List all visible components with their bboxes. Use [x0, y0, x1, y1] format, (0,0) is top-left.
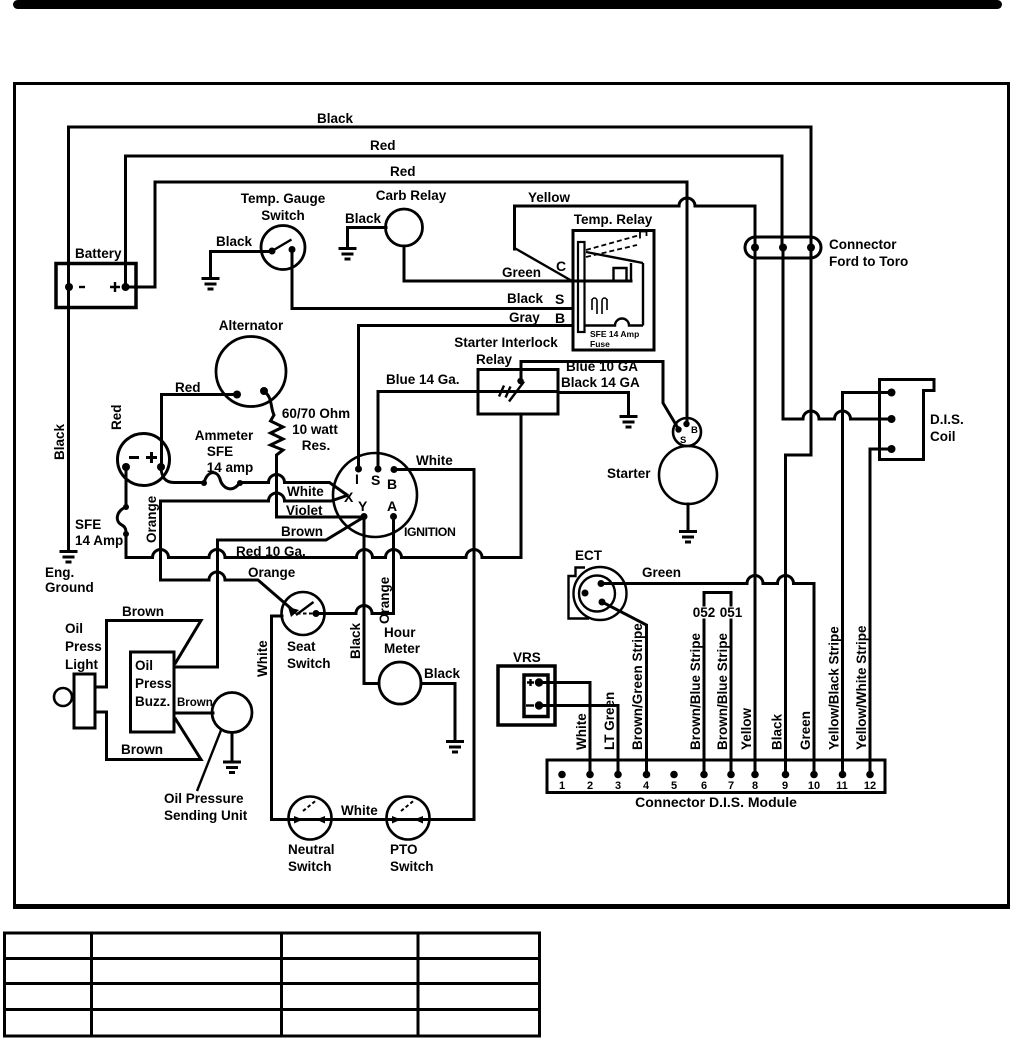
- wire: LT Green from VRS - to module pin 3: [539, 706, 618, 774]
- svg-text:ECT: ECT: [575, 548, 603, 563]
- svg-text:Hour: Hour: [384, 625, 416, 640]
- wire: sending unit to ground: [231, 733, 234, 762]
- svg-text:SFE: SFE: [207, 444, 233, 459]
- svg-text:11: 11: [836, 780, 848, 792]
- wire: White run between neutral and PTO switches to ignition B riser: [290, 818, 474, 821]
- svg-text:Blue 10 GA: Blue 10 GA: [566, 359, 638, 374]
- battery - terminal: [65, 283, 73, 291]
- svg-text:10: 10: [808, 780, 820, 792]
- temp gauge switch circle: [261, 226, 305, 270]
- label: Oil Press Light: [65, 621, 102, 672]
- svg-text:Black: Black: [52, 423, 67, 460]
- wire: relay output down to Red 10 Ga run: [520, 414, 523, 558]
- svg-text:4: 4: [643, 780, 650, 792]
- svg-text:Battery: Battery: [75, 246, 122, 261]
- svg-text:Green: Green: [642, 565, 681, 580]
- wire: Brown/Blue Stripe to module pin 7: [730, 620, 733, 773]
- svg-text:1: 1: [559, 780, 565, 792]
- ignition terminals I S B Y A: [355, 466, 398, 521]
- label: Seat Switch: [287, 639, 331, 671]
- label: Connector Ford to Toro: [829, 237, 908, 269]
- wire: Violet from orange riser to ignition X (wedge bottom): [161, 493, 348, 501]
- label: D.I.S. Coil: [930, 412, 964, 444]
- wire: Brown/Green Stripe from ECT to module pin 4: [604, 603, 647, 773]
- svg-text:PTO: PTO: [390, 842, 418, 857]
- svg-text:Light: Light: [65, 657, 98, 672]
- svg-text:Black: Black: [770, 713, 785, 750]
- svg-text:Seat: Seat: [287, 639, 316, 654]
- ground: black 14 GA: [620, 417, 638, 428]
- module pin numbers: [559, 780, 876, 792]
- svg-text:LT Green: LT Green: [602, 692, 617, 750]
- svg-text:Alternator: Alternator: [219, 318, 284, 333]
- svg-text:10 watt: 10 watt: [292, 422, 338, 437]
- ground: carb relay: [339, 249, 357, 260]
- svg-text:Brown: Brown: [121, 742, 163, 757]
- svg-text:B: B: [387, 476, 397, 492]
- label: Oil Press Buzz.: [135, 658, 172, 709]
- wire: Black from temp gauge switch to ground: [211, 252, 273, 278]
- svg-text:White: White: [416, 453, 453, 468]
- VRS polarity marks: [526, 679, 534, 706]
- svg-text:Orange: Orange: [377, 576, 392, 624]
- svg-text:Black: Black: [424, 666, 461, 681]
- svg-text:Eng.: Eng.: [45, 565, 74, 580]
- svg-text:3: 3: [615, 780, 621, 792]
- D.I.S. coil pins: [888, 389, 896, 454]
- svg-text:2: 2: [587, 780, 593, 792]
- wire: Black 14 GA from relay to ground: [558, 393, 629, 416]
- svg-text:SFE 14 Amp: SFE 14 Amp: [590, 329, 639, 339]
- outer diagram frame: [13, 84, 1010, 907]
- oil press light bulb: [54, 688, 72, 706]
- label: SFE 14 Amp Fuse: [590, 329, 639, 349]
- ignition terminal letters: [344, 471, 397, 514]
- svg-text:A: A: [387, 498, 397, 514]
- svg-text:Orange: Orange: [248, 565, 296, 580]
- wire: White from ignition B right and down to PTO switch: [394, 470, 474, 820]
- svg-text:Yellow/Black Stripe: Yellow/Black Stripe: [827, 626, 842, 750]
- node: ammeter fuse dots: [123, 504, 129, 537]
- temp relay dashed contact lines: [586, 232, 647, 258]
- svg-text:Black: Black: [348, 622, 363, 659]
- svg-text:Red: Red: [370, 138, 396, 153]
- svg-text:S: S: [555, 291, 564, 307]
- ECT body: [569, 568, 590, 619]
- svg-text:Black: Black: [317, 111, 354, 126]
- hour meter circle: [379, 662, 421, 704]
- svg-text:Yellow: Yellow: [528, 190, 571, 205]
- wire: Yellow diagonal to temp relay C terminal: [515, 248, 573, 281]
- bottom reference table: [5, 933, 540, 1036]
- svg-text:Ford to Toro: Ford to Toro: [829, 254, 908, 269]
- svg-text:Blue 14 Ga.: Blue 14 Ga.: [386, 372, 460, 387]
- wire: Brown/Blue Stripe to module pin 6: [703, 620, 706, 773]
- node: black wire corner down to connector: [810, 127, 813, 247]
- svg-text:Starter: Starter: [607, 466, 651, 481]
- ammeter circle: [118, 434, 170, 486]
- wire: Gray from temp relay B wire to ignition I terminal: [359, 326, 574, 470]
- svg-text:Violet: Violet: [286, 503, 323, 518]
- svg-text:Brown/Blue Stripe: Brown/Blue Stripe: [715, 632, 730, 750]
- svg-text:60/70 Ohm: 60/70 Ohm: [282, 406, 350, 421]
- svg-text:5: 5: [671, 780, 677, 792]
- svg-text:Press: Press: [135, 676, 172, 691]
- battery polarity marks: [79, 282, 120, 292]
- module connector box: [547, 760, 885, 793]
- svg-text:Y: Y: [358, 498, 368, 514]
- svg-text:9: 9: [782, 780, 788, 792]
- svg-text:12: 12: [864, 780, 876, 792]
- wire: Black from temp gauge switch right terminal to temp relay S: [292, 250, 573, 309]
- svg-text:Green: Green: [502, 265, 541, 280]
- wire: Blue 14 Ga from ignition S up to starter interlock relay: [378, 392, 478, 470]
- wire: Red from connector middle down then right to D.I.S. coil center pin: [783, 247, 891, 419]
- svg-text:Brown/Green Stripe: Brown/Green Stripe: [630, 623, 645, 750]
- temp relay internal right conductor: [642, 263, 644, 326]
- wire: Brown lower loop from light to buzzer: [95, 712, 201, 760]
- wire: Brown upper loop from light to buzzer: [95, 621, 201, 688]
- temp relay internal coil hook: [614, 263, 632, 281]
- svg-text:Red: Red: [175, 380, 201, 395]
- label: Temp. Gauge Switch: [241, 191, 326, 223]
- svg-text:Res.: Res.: [302, 438, 331, 453]
- wire: Red from alternator to ammeter: [162, 395, 238, 468]
- svg-text:Brown: Brown: [122, 604, 164, 619]
- temp relay box: [573, 231, 654, 351]
- svg-text:S: S: [371, 472, 380, 488]
- label: Blue 10 GA / Black 14 GA: [561, 359, 640, 390]
- svg-text:Meter: Meter: [384, 641, 421, 656]
- alternator terminals: [233, 387, 268, 399]
- label: Oil Pressure Sending Unit: [164, 791, 248, 823]
- pointer line: oil pressure sending unit: [197, 729, 222, 791]
- PTO switch contacts: [392, 801, 423, 824]
- wire: Yellow/Black Stripe from coil top pin down to module pin 11: [843, 393, 892, 774]
- svg-text:Gray: Gray: [509, 310, 540, 325]
- oil pressure sending unit circle: [212, 693, 252, 733]
- svg-text:SFE: SFE: [75, 517, 101, 532]
- wire: Yellow run from temp relay area to connector and down to module pin 8: [515, 198, 756, 773]
- wire: Yellow/White Stripe from coil bottom pin down to module pin 12: [870, 449, 892, 773]
- svg-text:Ground: Ground: [45, 580, 94, 595]
- svg-text:Switch: Switch: [287, 656, 331, 671]
- node: fuse end dots: [201, 480, 243, 486]
- wire: Red second run from battery + to starter B terminal: [126, 182, 688, 424]
- ignition switch circle: [333, 453, 417, 537]
- wire: Black from connector down with jog to module pin 9: [786, 247, 812, 773]
- ECT outer circle: [574, 567, 627, 620]
- svg-text:052: 052: [693, 605, 716, 620]
- ammeter polarity marks: [129, 452, 157, 463]
- svg-text:Black: Black: [345, 211, 382, 226]
- svg-text:Brown: Brown: [177, 697, 213, 709]
- svg-text:Starter Interlock: Starter Interlock: [454, 335, 558, 350]
- wire: Black from carb relay to ground: [348, 228, 387, 248]
- wire: SFE 14 Amp fuse below ammeter and Red 10 Ga. run: [117, 467, 521, 558]
- wire: White from VRS + to module pin 2: [539, 683, 590, 774]
- label: Neutral Switch: [288, 842, 335, 874]
- svg-text:IGNITION: IGNITION: [404, 525, 456, 539]
- temp relay internal clip (fuse holder): [592, 298, 607, 314]
- svg-text:Yellow/White Stripe: Yellow/White Stripe: [854, 625, 869, 750]
- D.I.S. coil connector body: [880, 380, 935, 460]
- starter terminals: [675, 421, 689, 433]
- 052 051 jumper bracket: [704, 593, 731, 606]
- svg-text:Red 10 Ga.: Red 10 Ga.: [236, 544, 306, 559]
- ground: starter: [679, 532, 697, 543]
- wire: Brown from buzzer to sending unit: [174, 712, 213, 715]
- temp relay internal green continuation: [573, 280, 631, 283]
- wire: Blue 10 GA from relay to starter S: [521, 362, 679, 430]
- svg-text:Black: Black: [216, 234, 253, 249]
- svg-text:Oil: Oil: [65, 621, 83, 636]
- svg-text:Ammeter: Ammeter: [195, 428, 254, 443]
- PTO switch circle: [387, 797, 430, 840]
- svg-text:VRS: VRS: [513, 650, 541, 665]
- svg-text:Carb Relay: Carb Relay: [376, 188, 447, 203]
- seat switch contacts: [288, 602, 320, 617]
- label: Starter Interlock Relay: [454, 335, 558, 367]
- svg-text:Yellow: Yellow: [739, 707, 754, 750]
- svg-text:Fuse: Fuse: [590, 339, 610, 349]
- svg-text:Buzz.: Buzz.: [135, 694, 170, 709]
- svg-text:Red: Red: [390, 164, 416, 179]
- svg-text:Sending Unit: Sending Unit: [164, 808, 248, 823]
- svg-text:Brown/Blue Stripe: Brown/Blue Stripe: [688, 632, 703, 750]
- neutral switch contacts: [294, 801, 325, 824]
- starter motor circle: [659, 446, 717, 504]
- svg-text:Neutral: Neutral: [288, 842, 335, 857]
- svg-text:Black 14 GA: Black 14 GA: [561, 375, 640, 390]
- wire: starter to ground: [687, 504, 690, 530]
- svg-text:Orange: Orange: [144, 495, 159, 543]
- VRS outer box: [498, 666, 555, 725]
- connector Ford to Toro pins: [751, 244, 815, 252]
- starter solenoid circle: [673, 418, 701, 446]
- svg-text:7: 7: [728, 780, 734, 792]
- label: Ammeter SFE 14 amp: [195, 428, 254, 475]
- svg-text:Black: Black: [507, 291, 544, 306]
- VRS terminals: [535, 678, 543, 709]
- ECT pins: [582, 580, 606, 606]
- wire: Black from hour meter to ground: [421, 684, 455, 741]
- wire: Brown from ignition Y diagonal and down to oil press buzzer: [176, 517, 364, 667]
- ground: sending unit: [223, 762, 241, 773]
- carb relay circle: [386, 209, 423, 246]
- svg-text:14 Amp: 14 Amp: [75, 533, 123, 548]
- wire: Black battery negative loop (top): [69, 127, 812, 551]
- svg-text:Relay: Relay: [476, 352, 513, 367]
- temp relay armature arm: [586, 252, 643, 263]
- svg-text:Switch: Switch: [390, 859, 434, 874]
- top header bar: [13, 0, 1002, 9]
- svg-text:6: 6: [701, 780, 707, 792]
- wire: White from ammeter + through SFE fuse to ignition X (wedge top): [161, 467, 347, 495]
- svg-text:C: C: [556, 258, 566, 274]
- svg-text:D.I.S.: D.I.S.: [930, 412, 964, 427]
- starter interlock relay switch: [478, 378, 558, 402]
- svg-text:Switch: Switch: [261, 208, 305, 223]
- svg-text:Temp. Gauge: Temp. Gauge: [241, 191, 326, 206]
- wire: Green from carb relay down and right to temp relay C: [404, 246, 573, 281]
- VRS inner box: [524, 675, 548, 717]
- svg-text:Connector D.I.S. Module: Connector D.I.S. Module: [635, 794, 797, 810]
- seat switch circle: [282, 592, 325, 635]
- svg-text:I: I: [355, 471, 359, 487]
- oil press buzzer box: [131, 652, 175, 732]
- svg-text:Coil: Coil: [930, 429, 956, 444]
- wire: Red battery positive up to top run: [126, 156, 783, 287]
- wire: Green from ECT to module pin 10: [601, 576, 814, 774]
- ECT inner circle: [579, 576, 615, 612]
- svg-text:B: B: [555, 310, 565, 326]
- svg-text:051: 051: [720, 605, 743, 620]
- label: PTO Switch: [390, 842, 434, 874]
- wire: White loop from seat switch down to neutral switch: [272, 616, 291, 820]
- svg-text:S: S: [680, 435, 686, 446]
- alternator circle: [216, 337, 286, 407]
- ground: hour meter: [446, 742, 464, 753]
- battery + terminal: [122, 283, 130, 291]
- label: Eng. Ground: [45, 565, 94, 595]
- starter interlock relay box: [478, 370, 558, 415]
- starter terminal letters: [680, 425, 698, 446]
- wire: Orange from seat switch right to ignition A: [316, 517, 394, 614]
- svg-text:White: White: [341, 803, 378, 818]
- svg-text:Brown: Brown: [281, 524, 323, 539]
- ground: temp gauge switch: [202, 279, 220, 290]
- svg-text:8: 8: [752, 780, 758, 792]
- svg-text:White: White: [287, 484, 324, 499]
- wire: battery black to engine ground: [60, 552, 78, 563]
- temp relay internal gray continuation with fuse bump: [584, 319, 643, 326]
- svg-text:Temp. Relay: Temp. Relay: [574, 212, 653, 227]
- svg-text:Green: Green: [798, 711, 813, 750]
- svg-text:Oil Pressure: Oil Pressure: [164, 791, 244, 806]
- label: SFE 14 Amp (ammeter fuse): [75, 517, 123, 548]
- wire: resistor lead and 60/70 ohm resistor body down to ignition Y: [264, 391, 364, 517]
- svg-text:Oil: Oil: [135, 658, 153, 673]
- wire: Violet/Orange riser down to orange run and seat switch: [161, 501, 296, 612]
- svg-text:Press: Press: [65, 639, 102, 654]
- connector Ford to Toro body: [745, 237, 821, 258]
- wire: Black from ignition Y region down to hour meter: [364, 517, 379, 684]
- svg-text:Switch: Switch: [288, 859, 332, 874]
- svg-text:Connector: Connector: [829, 237, 897, 252]
- svg-text:White: White: [574, 713, 589, 750]
- neutral switch circle: [289, 797, 332, 840]
- label: Hour Meter: [384, 625, 421, 656]
- svg-text:Red: Red: [109, 404, 124, 430]
- svg-text:B: B: [691, 425, 698, 436]
- label: 60/70 Ohm 10 watt Res.: [282, 406, 350, 453]
- oil press light box: [74, 674, 95, 728]
- temp relay inner armature bar: [578, 242, 585, 332]
- module pin dots: [558, 771, 874, 779]
- ammeter terminals: [122, 463, 165, 471]
- svg-text:White: White: [255, 640, 270, 677]
- battery box: [56, 264, 136, 308]
- temp gauge switch contacts: [269, 240, 296, 255]
- svg-text:X: X: [344, 489, 354, 505]
